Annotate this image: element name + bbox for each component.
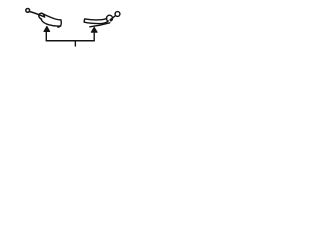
linkage center stub	[74, 41, 76, 46]
switch SW2a body upper edge	[85, 18, 107, 19]
linkage left arrowhead	[44, 26, 50, 31]
switch SW2a terminal circle	[115, 12, 120, 17]
linkage right arrow shaft	[93, 32, 95, 41]
switch SW1a cap bottom hook	[58, 26, 61, 27]
linkage right arrowhead	[91, 27, 97, 32]
switch SW1a terminal circle	[26, 9, 30, 13]
switch SW1a pivot loop	[39, 13, 45, 19]
switch SW2a body end cap	[83, 19, 86, 22]
switch SW2a body under-stroke	[90, 23, 110, 27]
switch SW2a body lower edge	[84, 21, 108, 24]
switch SW1a body end cap	[60, 20, 63, 26]
switch SW1a lever wire	[29, 12, 44, 17]
switch SW2a lever wire	[110, 16, 116, 20]
linkage bottom bar	[46, 40, 94, 42]
switch SW2a pivot loop	[106, 15, 112, 21]
switch SW1a body lower edge	[41, 20, 60, 27]
linkage left arrow shaft	[45, 31, 47, 41]
switch SW1a body upper edge	[43, 14, 61, 20]
